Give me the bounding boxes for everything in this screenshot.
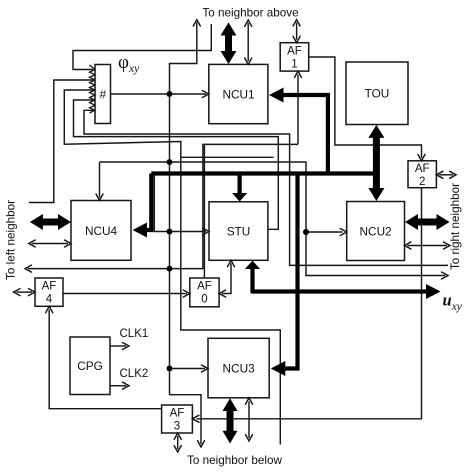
arrowhead thin double NCU4-left (right end)	[65, 240, 72, 247]
svg-text:AF: AF	[287, 46, 302, 58]
arrowhead thin double NCU2-right (left end)	[405, 242, 412, 249]
svg-text:0: 0	[201, 294, 207, 306]
arrowhead into NCU2 left	[340, 229, 347, 236]
wire to-left-neighbor net y145.3	[28, 144, 298, 268]
arrowhead thin double NCU2-right (right end)	[444, 242, 451, 249]
block TOU	[346, 62, 408, 125]
arrowhead into AF2 top (down)	[418, 154, 425, 160]
arrowhead thin double AF2-right (left end)	[436, 171, 443, 178]
wire thin double arrow above AF1	[296, 23, 298, 40]
arrowhead thin double AF3-below (up end)	[174, 433, 181, 439]
arrowhead thin double AF4-left (right end)	[29, 289, 36, 296]
node dot (169.5,268.6)	[167, 266, 173, 272]
block AF4	[35, 278, 63, 306]
arrowhead right y275.5	[442, 272, 449, 279]
thick arrowhead TOU bottom (up)	[368, 125, 384, 138]
arrowhead into STU left	[203, 228, 210, 235]
thick arrowhead into STU bottom	[245, 261, 260, 269]
wire AF1 right to AF2 top	[309, 57, 422, 158]
arrowhead thin double NCU1-top upper	[245, 20, 252, 26]
svg-text:uxy: uxy	[443, 291, 463, 314]
svg-text:4: 4	[46, 294, 53, 306]
arrowhead down x201 to neighbor below	[198, 441, 205, 447]
thick double arrow NCU2 to right neighbor	[416, 219, 438, 226]
thick bus horizontal y173.5	[151, 171, 373, 175]
arrowhead into AF1 bottom (up)	[295, 71, 302, 77]
wire thin double arrow AF2 right	[439, 174, 453, 176]
thick arrowhead NCU3-below (up, at box edge)	[223, 398, 238, 411]
thick double arrow NCU3 to neighbor below	[227, 410, 234, 433]
wire STU left input	[154, 174, 206, 232]
wire stub y157.3	[181, 156, 274, 158]
wire NCU4 top feed and NCU2 left feed net y162	[100, 162, 446, 276]
svg-text:AF: AF	[42, 281, 57, 293]
arrowhead thin double NCU3-below (up end)	[246, 398, 253, 404]
arrowhead thin double AF3-below (down end)	[174, 446, 181, 452]
svg-text:AF: AF	[197, 281, 212, 293]
arrowhead CLK2	[123, 382, 130, 389]
thick double arrow NCU4 to left neighbor	[41, 219, 60, 226]
svg-text:To neighbor below: To neighbor below	[187, 454, 282, 467]
thick arrowhead above (to neighbor above, up)	[221, 23, 237, 36]
svg-text:STU: STU	[227, 225, 251, 239]
wire thin double arrow NCU3 below	[248, 401, 250, 438]
svg-text:#: #	[99, 88, 106, 102]
thick branch up to STU bottom	[250, 268, 254, 294]
wire NCU3 left input	[170, 368, 206, 370]
thick arrowhead into NCU1 right edge	[269, 88, 284, 103]
wire # input5 net to right edge	[84, 110, 448, 265]
arrowhead into AF3 right (left-pointing)	[192, 415, 199, 422]
arrowhead into AF0 right (left-pointing)	[219, 290, 226, 297]
arrowhead into STU bottom from AF0 (up)	[228, 260, 235, 266]
arrowhead thin double NCU1-top lower	[245, 58, 252, 64]
wire CLK2	[110, 385, 126, 387]
summing block #	[95, 65, 111, 124]
arrowhead into NCU4 top (down)	[96, 194, 103, 200]
arrowhead into AF4 bottom (up)	[46, 306, 53, 312]
arrowhead CLK1	[123, 343, 130, 350]
svg-text:NCU2: NCU2	[360, 225, 392, 239]
thick arrowhead NCU4-left (right, at box edge)	[58, 214, 71, 230]
svg-text:3: 3	[174, 421, 180, 433]
node dot (169.5,231.5)	[167, 229, 173, 235]
thick branch down to STU top	[238, 176, 242, 195]
svg-text:CLK1: CLK1	[120, 328, 149, 340]
wire thin double arrow NCU2 right	[408, 245, 448, 247]
svg-text:CPG: CPG	[77, 359, 103, 373]
thick branch down to NCU4 right arrow	[146, 174, 151, 231]
thick wire into NCU1 right	[281, 95, 328, 172]
wire CLK1	[110, 345, 126, 347]
wire # output to NCU1 left	[111, 93, 207, 95]
thick arrowhead above (down)	[221, 51, 237, 64]
svg-text:To right neighbor: To right neighbor	[449, 183, 462, 270]
thick arrowhead NCU2-right (right)	[437, 214, 450, 230]
node dot (169.5,162)	[167, 159, 173, 165]
svg-text:1: 1	[291, 59, 297, 71]
wire # input2 to left stub	[29, 80, 93, 203]
arrowhead into NCU1 left	[202, 91, 209, 98]
arrowhead thin double AF2-right (right end)	[450, 171, 457, 178]
svg-text:AF: AF	[415, 163, 430, 175]
svg-text:TOU: TOU	[365, 87, 390, 101]
block AF1	[280, 43, 309, 71]
thick double arrow to neighbor above	[225, 34, 232, 54]
arrowhead thin double NCU3-below (down end)	[246, 435, 253, 441]
block NCU2	[347, 202, 405, 261]
arrowhead thin double NCU4-left (left end)	[29, 240, 36, 247]
block AF2	[408, 161, 436, 188]
block CPG	[70, 337, 110, 395]
wire down to NCU4 top	[99, 162, 101, 198]
wire from above to # input1	[73, 24, 211, 70]
block NCU1	[209, 64, 268, 123]
wire main vertical bus x169.5	[170, 23, 202, 445]
wire thin double arrow NCU4 left	[32, 243, 68, 245]
svg-text:AF: AF	[170, 408, 185, 420]
wire AF4 right to AF0 left	[63, 293, 187, 295]
arrowhead into NCU3 left	[202, 365, 209, 372]
block AF0	[190, 278, 219, 307]
wire AF0 top feed	[203, 144, 205, 278]
arrowhead up to neighbor above x196.8	[193, 20, 200, 26]
svg-text:To left neighbor: To left neighbor	[5, 200, 18, 280]
svg-text:2: 2	[419, 176, 425, 188]
wire AF0 right to STU bottom	[222, 263, 231, 293]
block STU	[209, 202, 268, 260]
block AF3	[162, 405, 193, 433]
wire AF1 bottom feed	[297, 75, 299, 145]
wire thin double arrow AF3 below	[177, 436, 179, 449]
thick arrowhead NCU2-right (left, at box edge)	[405, 214, 418, 230]
thick u_xy line	[253, 289, 428, 293]
block NCU4	[71, 201, 131, 261]
wire # input3 long net down and right to below	[64, 90, 280, 445]
zigzag input marks on # block	[90, 65, 96, 113]
svg-text:φxy: φxy	[118, 52, 140, 75]
thick arrowhead into NCU3 right edge	[271, 361, 286, 376]
wire AF2 bottom to AF3 right	[196, 188, 421, 419]
thick arrowhead NCU2 top (down)	[368, 188, 384, 201]
wire # input4 net to STU right edge	[74, 100, 279, 229]
thick arrowhead NCU3-below (down)	[223, 431, 238, 444]
node dot (306,232)	[303, 229, 309, 235]
arrowhead thin double AF1-top upper	[293, 20, 300, 26]
arrowhead into AF0 left	[183, 290, 190, 297]
thick arrowhead NCU4-left (left)	[30, 214, 43, 230]
thick arrowhead u_xy output	[426, 284, 441, 299]
arrowhead thin double AF4-left (left end)	[14, 289, 21, 296]
node dot (169.5,94)	[167, 91, 173, 97]
block NCU3	[208, 338, 269, 398]
arrowhead to-left-neighbor (left)	[25, 265, 32, 272]
wire NCU2 left input	[306, 231, 343, 233]
thick branch down to NCU3 right arrow	[284, 176, 298, 369]
svg-text:CLK2: CLK2	[120, 368, 149, 380]
wire AF3 left to AF4 bottom	[49, 310, 161, 409]
thick arrowhead into NCU4 right edge	[133, 223, 148, 238]
thick double arrow TOU-NCU2	[373, 136, 380, 190]
wire thin double arrow AF4 left	[17, 291, 33, 293]
thick arrowhead into STU top	[232, 193, 247, 202]
wire thin double arrow above NCU1	[247, 23, 249, 61]
arrowhead thin double AF1-top lower	[293, 36, 300, 42]
svg-text:NCU3: NCU3	[223, 362, 256, 376]
svg-text:NCU4: NCU4	[85, 224, 118, 238]
node dot (169.5,368.5)	[167, 366, 173, 372]
svg-text:NCU1: NCU1	[222, 88, 254, 102]
svg-text:To neighbor above: To neighbor above	[202, 7, 298, 20]
